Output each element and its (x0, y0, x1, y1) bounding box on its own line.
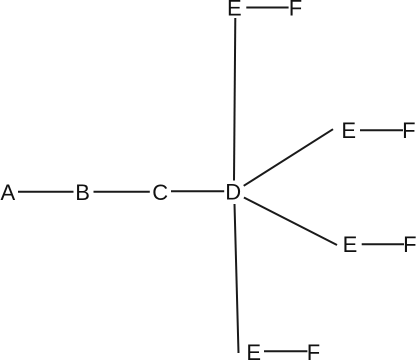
wire D-E top vertical (234, 18, 235, 181)
wire E-F bottom (264, 350, 307, 352)
svg-text:F: F (307, 340, 320, 361)
svg-text:F: F (289, 0, 302, 21)
wire D-E upper-right diagonal (244, 129, 333, 186)
svg-text:A: A (1, 180, 16, 205)
svg-text:E: E (227, 0, 242, 21)
svg-text:F: F (402, 118, 415, 143)
wire A-B (18, 191, 74, 193)
svg-text:E: E (246, 340, 261, 361)
svg-text:E: E (341, 118, 356, 143)
wire C-D (171, 190, 224, 192)
wire D-E bottom vertical (235, 204, 239, 353)
wire B-C (94, 191, 150, 193)
wire E-F upper-right (360, 129, 403, 131)
wire D-E lower-right diagonal (244, 198, 337, 246)
svg-text:B: B (75, 180, 90, 205)
svg-text:F: F (403, 232, 416, 257)
wire E-F top (246, 7, 288, 9)
svg-text:C: C (152, 180, 168, 205)
svg-text:E: E (343, 232, 358, 257)
wire E-F lower-right (362, 243, 404, 245)
svg-text:D: D (225, 180, 241, 205)
